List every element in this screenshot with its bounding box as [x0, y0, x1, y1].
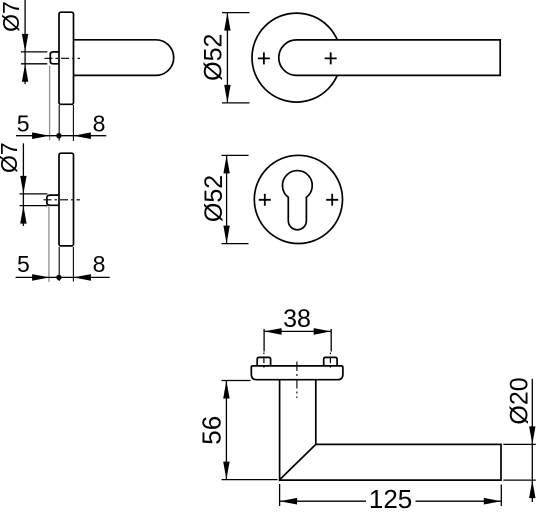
extension lines from rose [58, 247, 60, 281]
dimension Ø52 (top drawing) [222, 13, 250, 103]
key rose Ø52 (front) [254, 155, 342, 243]
spindle square (side) [50, 52, 60, 64]
svg-text:Ø52: Ø52 [199, 34, 227, 81]
centerline (dashed) [45, 57, 81, 59]
rose Ø52 (front) [252, 13, 341, 102]
screw axis left (dash-dot) [263, 353, 265, 371]
screw cross left [259, 194, 271, 206]
dimension Ø52 (middle drawing) [222, 155, 249, 243]
handle axis (dash-dot) [296, 362, 298, 399]
screw cross right [326, 194, 338, 206]
dimension 38 [264, 329, 331, 352]
svg-text:8: 8 [93, 251, 106, 277]
screw axis right (dash-dot) [329, 353, 331, 371]
svg-text:Ø52: Ø52 [200, 175, 228, 222]
euro profile cylinder hole [282, 171, 312, 230]
svg-text:5: 5 [17, 111, 30, 137]
lever (side view, rounded end) [74, 40, 174, 76]
rose plate (side view) [59, 12, 74, 104]
rose plate (top view bar) [251, 366, 343, 380]
dimension Ø20 [503, 379, 536, 502]
dimension Ø7 (top drawing) [21, 0, 47, 84]
lever handle (front) [279, 40, 500, 76]
dimension 56 [222, 381, 278, 480]
dimension 125 [280, 484, 502, 506]
extension line (grey) from bump [48, 207, 50, 282]
screw cross right [325, 52, 337, 64]
key rose plate (side view) [59, 153, 74, 246]
svg-text:Ø7: Ø7 [0, 1, 24, 32]
centerline (dashed) [44, 199, 81, 201]
svg-text:Ø20: Ø20 [506, 377, 534, 424]
dimension 5 / 8 (middle drawing) [16, 276, 110, 278]
handle neck and grip (top view) [280, 380, 501, 480]
screw cross left [258, 52, 270, 64]
extension lines from rose [58, 105, 60, 141]
svg-text:125: 125 [369, 484, 412, 514]
screw head left [257, 357, 270, 366]
screw head right [324, 357, 337, 366]
svg-text:38: 38 [283, 305, 311, 333]
extension line (grey) from spindle [49, 66, 51, 141]
dimension 5 / 8 (top drawing) [16, 135, 106, 137]
cylinder bump (side) [47, 195, 61, 205]
dimension Ø7 (middle drawing) [20, 143, 48, 226]
svg-text:Ø7: Ø7 [0, 142, 22, 173]
svg-text:56: 56 [197, 416, 227, 445]
svg-text:5: 5 [17, 251, 30, 277]
svg-text:8: 8 [93, 111, 106, 137]
